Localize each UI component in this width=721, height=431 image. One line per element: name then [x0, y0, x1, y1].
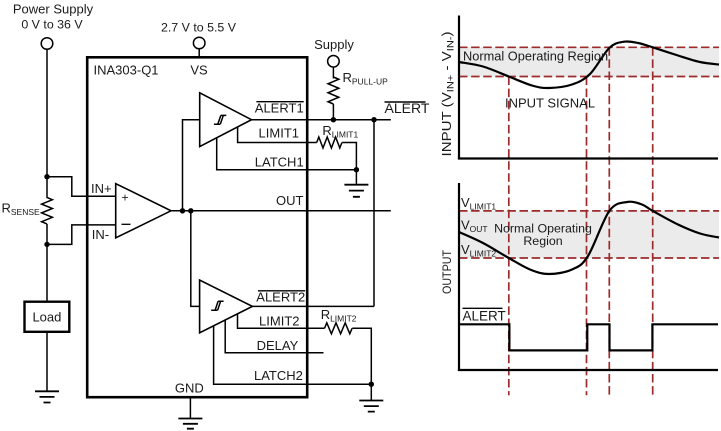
- label Power Supply / 0 V to 36 V: [13, 2, 94, 32]
- limit dashed line VLIMIT1 of output band: [459, 210, 719, 212]
- label RLIMIT1: [322, 123, 358, 140]
- Load box: [25, 302, 70, 332]
- label INA303-Q1: [94, 63, 159, 78]
- pin label IN+: [91, 181, 112, 196]
- input plot y-axis: [458, 16, 460, 160]
- opamp output wire OUT: [171, 210, 391, 212]
- pin label GND: [175, 381, 204, 396]
- label VLIMIT1: [461, 195, 496, 212]
- pin label ALERT1 with overline: [255, 100, 304, 115]
- ground (GND pin): [178, 419, 202, 429]
- svg-text:OUT: OUT: [276, 193, 304, 208]
- node: bottom of Rsense junction: [44, 242, 49, 247]
- wire VS terminal to box: [198, 49, 200, 58]
- svg-text:OUTPUT: OUTPUT: [442, 250, 454, 294]
- label ALERT with overline: [385, 100, 430, 116]
- svg-text:+: +: [122, 191, 129, 205]
- node: RLIMIT2/LATCH2 junction: [369, 382, 374, 387]
- node: out to comparator 1: [180, 208, 185, 213]
- label VOUT: [461, 218, 488, 235]
- wire power supply down to Rsense node: [46, 49, 48, 176]
- svg-text:Region: Region: [523, 234, 562, 248]
- resistor RLIMIT1: [317, 137, 342, 148]
- label RPULL-UP: [343, 70, 389, 87]
- vertical dashed marker 3: [608, 47, 610, 395]
- label Normal Operating Region (output, 2 lines): [494, 222, 592, 249]
- svg-text:LIMIT2: LIMIT2: [259, 313, 299, 328]
- resistor RSENSE: [42, 177, 53, 224]
- ground (RLIMIT1): [344, 185, 368, 197]
- pin label LATCH1: [255, 155, 304, 170]
- y-axis label INPUT (VIN+ - VIN-): [439, 32, 457, 157]
- limit dashed line top of input band: [459, 46, 719, 48]
- pin label OUT: [276, 193, 304, 208]
- wire Rsense bottom to node: [46, 224, 48, 244]
- pin label IN-: [92, 227, 109, 242]
- ground (load): [35, 391, 59, 402]
- node: ALERT junction: [371, 117, 376, 122]
- label Supply: [314, 37, 354, 52]
- limit dashed line bottom of input band: [459, 76, 719, 78]
- wire node down to Load: [46, 244, 48, 301]
- node: top of Rsense junction: [44, 174, 49, 179]
- svg-text:LATCH1: LATCH1: [255, 155, 304, 170]
- svg-text:VS: VS: [190, 63, 208, 78]
- svg-text:Normal Operating Region: Normal Operating Region: [463, 48, 608, 63]
- vertical dashed marker 4: [652, 47, 654, 395]
- input signal curve: [459, 41, 719, 88]
- normal operating region band (output plot): [459, 211, 719, 258]
- wire GND pin to ground: [189, 397, 191, 418]
- label ALERT (waveform) with overline: [463, 308, 506, 323]
- svg-text:RPULL-UP: RPULL-UP: [343, 70, 389, 87]
- VS supply terminal circle: [193, 37, 205, 49]
- svg-text:Supply: Supply: [314, 37, 354, 52]
- DELAY wire: [225, 320, 323, 353]
- comparator U2: [200, 93, 252, 147]
- pin label LATCH2: [254, 368, 303, 383]
- IC box INA303-Q1: [87, 57, 307, 397]
- resistor RPULL-UP: [328, 77, 339, 104]
- node: out to comparator 2: [188, 208, 193, 213]
- svg-text:ALERT2: ALERT2: [256, 289, 305, 304]
- svg-text:LATCH2: LATCH2: [254, 368, 303, 383]
- pull-up supply terminal circle: [328, 56, 340, 68]
- op-amp U1: [116, 184, 171, 238]
- label Normal Operating Region (input): [463, 48, 608, 63]
- ALERT1 output wire: [252, 119, 391, 121]
- LIMIT1 wire from comparator to resistor: [238, 127, 317, 143]
- svg-text:VLIMIT1: VLIMIT1: [461, 195, 496, 212]
- input plot x-axis: [458, 157, 718, 159]
- output signal curve: [459, 202, 719, 274]
- wire Load to ground: [46, 332, 48, 392]
- node: RLIMIT1/LATCH1 junction: [354, 167, 359, 172]
- ALERT waveform trace: [459, 324, 718, 350]
- wire node to IN+ pin: [47, 177, 116, 197]
- output plot y-axis: [458, 183, 460, 371]
- vertical dashed marker 1: [508, 77, 510, 396]
- y-axis label OUTPUT: [442, 250, 454, 294]
- ground (RLIMIT2): [359, 401, 383, 412]
- ALERT2 output wire: [252, 305, 374, 307]
- label RLIMIT2: [321, 307, 357, 324]
- wire out down to comparator2 input: [191, 211, 200, 307]
- node: Rpullup junction on ALERT1: [331, 117, 336, 122]
- svg-text:GND: GND: [175, 381, 204, 396]
- svg-text:Load: Load: [32, 309, 61, 324]
- label RSENSE: [2, 201, 41, 218]
- svg-text:RLIMIT2: RLIMIT2: [321, 307, 357, 324]
- power supply terminal circle: [41, 38, 53, 50]
- svg-text:IN-: IN-: [92, 227, 109, 242]
- wire supply to Rpullup: [332, 67, 334, 78]
- svg-text:RLIMIT1: RLIMIT1: [322, 123, 358, 140]
- normal operating region band (input plot): [459, 47, 719, 76]
- svg-text:ALERT: ALERT: [463, 309, 506, 324]
- label INPUT SIGNAL: [505, 96, 595, 111]
- label Load: [32, 309, 61, 324]
- pin label VS: [190, 63, 208, 78]
- limit dashed line VLIMIT2 of output band: [459, 257, 719, 259]
- comparator U3: [200, 280, 253, 333]
- svg-text:0 V to 36 V: 0 V to 36 V: [21, 18, 83, 32]
- wire node to IN- pin: [47, 225, 116, 245]
- pin label DELAY: [257, 338, 299, 353]
- LATCH1 wire: [217, 138, 357, 170]
- svg-text:IN+: IN+: [91, 181, 112, 196]
- svg-text:2.7 V to 5.5 V: 2.7 V to 5.5 V: [161, 20, 237, 34]
- svg-text:LIMIT1: LIMIT1: [259, 125, 299, 140]
- pin label LIMIT2: [259, 313, 299, 328]
- LIMIT2 wire from comparator to resistor: [238, 314, 325, 329]
- LATCH2 wire: [214, 326, 372, 384]
- output plot x-axis: [458, 369, 718, 371]
- vertical dashed marker 2: [586, 77, 588, 396]
- wire ALERT vertical to ALERT2: [373, 120, 375, 307]
- resistor RLIMIT2: [325, 323, 353, 334]
- wire Rpullup to ALERT1 line: [332, 104, 334, 120]
- svg-text:INA303-Q1: INA303-Q1: [94, 63, 159, 78]
- svg-text:Power Supply: Power Supply: [13, 2, 94, 17]
- label 2.7 V to 5.5 V: [161, 20, 237, 34]
- svg-text:INPUT SIGNAL: INPUT SIGNAL: [505, 96, 595, 111]
- label VLIMIT2: [461, 242, 496, 259]
- svg-text:RSENSE: RSENSE: [2, 201, 41, 218]
- wire RLIMIT1 to ground: [342, 143, 356, 185]
- pin label ALERT2 with overline: [256, 289, 305, 304]
- wire RLIMIT2 to ground: [352, 328, 371, 400]
- wire out up to comparator1 input: [183, 120, 200, 211]
- svg-text:DELAY: DELAY: [257, 338, 299, 353]
- svg-text:INPUT (VIN+ - VIN-): INPUT (VIN+ - VIN-): [439, 32, 457, 157]
- pin label LIMIT1: [259, 125, 299, 140]
- svg-text:ALERT1: ALERT1: [255, 100, 304, 115]
